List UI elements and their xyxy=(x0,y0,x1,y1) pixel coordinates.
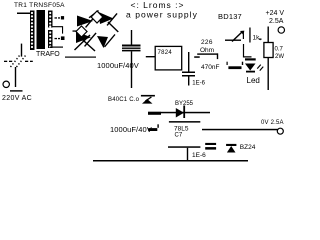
svg-text:BZ24: BZ24 xyxy=(240,144,256,151)
bridge diode D1 bar slash xyxy=(85,14,97,28)
bridge diode D2 bar slash xyxy=(107,13,118,26)
svg-text:0.7: 0.7 xyxy=(275,47,284,53)
wire R1 corner down xyxy=(217,53,218,59)
capacitor C1 top wire xyxy=(131,30,132,45)
svg-text:1k,: 1k, xyxy=(253,35,262,42)
resistor R3 box xyxy=(264,43,273,58)
diode Z1 bar xyxy=(141,95,155,97)
bridge arm wire to right node xyxy=(107,22,118,33)
diode Z1 triangle xyxy=(142,99,153,104)
diode Z1 diagonal xyxy=(145,97,152,102)
switch dashes xyxy=(4,61,7,62)
wire line2 xyxy=(169,121,200,123)
transistor Q1 emitter arrow xyxy=(232,32,243,43)
bridge diode D4 bar slash xyxy=(104,34,116,47)
secondary upper tap dashes xyxy=(55,17,58,18)
diode D6 bar xyxy=(183,106,185,119)
svg-text:1000uF/40V: 1000uF/40V xyxy=(97,61,139,70)
wire 1k to LED xyxy=(243,44,252,58)
regulator U1 box xyxy=(155,46,182,70)
svg-text:Ohm: Ohm xyxy=(200,47,214,54)
bridge node diamond top xyxy=(91,11,103,23)
capacitor C2 top wire xyxy=(188,52,189,72)
svg-text:C7: C7 xyxy=(175,133,183,139)
transformer secondary winding upper xyxy=(48,11,53,28)
bridge diode D4 triangle xyxy=(97,36,108,48)
bridge diode D3 triangle xyxy=(76,32,91,44)
svg-text:220V AC: 220V AC xyxy=(2,95,32,102)
bridge diode D1 triangle xyxy=(77,16,93,27)
wire primary top xyxy=(17,13,31,15)
svg-text:7824: 7824 xyxy=(158,50,173,56)
terminal input circle xyxy=(3,81,9,87)
bridge diode D2 triangle xyxy=(99,12,114,24)
transformer primary winding xyxy=(30,11,35,51)
transistor Q1 tick xyxy=(243,34,244,40)
capacitor C3 symbol xyxy=(227,62,228,65)
transformer secondary winding lower xyxy=(48,30,53,48)
capacitor C2 bottom wire xyxy=(188,76,189,86)
svg-text:TR1 TRNSF05A: TR1 TRNSF05A xyxy=(14,2,65,9)
bridge arm wire to top node xyxy=(89,10,99,18)
transformer core xyxy=(37,10,46,49)
wire transformer to switch xyxy=(21,44,22,57)
capacitor C5 plates xyxy=(205,143,216,145)
LED D5 light arrows xyxy=(257,64,261,69)
svg-text:78L5: 78L5 xyxy=(174,126,189,133)
regulator output stub xyxy=(194,56,200,58)
secondary lower tap dashes xyxy=(55,38,58,39)
resistor R3 bottom wire xyxy=(268,58,269,91)
resistor R3 top wire xyxy=(268,27,269,43)
svg-text:+24 V: +24 V xyxy=(266,10,285,17)
svg-text:470nF: 470nF xyxy=(201,64,219,71)
diode D6 triangle xyxy=(176,108,184,118)
switch dotted contact 1 xyxy=(11,56,20,68)
diode Z2 bar xyxy=(226,144,236,146)
capacitor C4 symbol xyxy=(148,128,157,131)
capacitor C2 plates xyxy=(182,72,195,74)
svg-text:2.5A: 2.5A xyxy=(269,18,284,25)
secondary lower tap square xyxy=(61,36,65,40)
LED D5 triangle xyxy=(245,64,256,71)
svg-text:2W: 2W xyxy=(275,54,284,60)
regulator input wire xyxy=(146,56,155,57)
svg-text:1E-6: 1E-6 xyxy=(192,80,205,86)
capacitor C1 plates xyxy=(122,45,141,47)
wire R1 horizontal xyxy=(197,53,218,54)
transistor Q1 base line xyxy=(225,40,241,41)
wire cap C5 down xyxy=(187,148,188,161)
diode Z2 triangle xyxy=(227,146,236,153)
svg-text:1E-6: 1E-6 xyxy=(192,152,206,159)
wire bridge bottom rail xyxy=(65,57,96,58)
svg-text:TRAFO: TRAFO xyxy=(36,51,60,58)
wire to bridge left node xyxy=(73,30,81,31)
rail to output minus xyxy=(202,129,278,131)
bridge diode D3 bar slash xyxy=(84,33,97,47)
svg-text:B40C1 C.o: B40C1 C.o xyxy=(108,97,140,103)
svg-text:BD137: BD137 xyxy=(218,12,242,21)
bridge node diamond left xyxy=(76,26,87,37)
wire terminal xyxy=(10,90,23,91)
bridge X cross line 1 xyxy=(74,35,91,51)
resistor R2 1k line xyxy=(249,28,250,43)
wire bottom center xyxy=(168,146,200,148)
bridge X cross line 2 xyxy=(79,36,96,52)
svg-text:a power supply: a power supply xyxy=(126,9,198,19)
svg-text:226: 226 xyxy=(201,39,213,46)
wire secondary lower bottom xyxy=(50,47,63,48)
capacitor C1 bottom wire xyxy=(131,51,132,88)
wire switch down xyxy=(15,67,16,87)
terminal output circle xyxy=(278,27,284,33)
switch dotted contact 2 xyxy=(17,56,26,68)
wire secondary upper elbow xyxy=(52,26,64,33)
LED D5 cathode bar xyxy=(246,71,255,73)
terminal output minus circle xyxy=(277,128,283,134)
svg-text:1000uF/40V: 1000uF/40V xyxy=(110,125,152,134)
svg-text:Led: Led xyxy=(247,76,260,85)
svg-text:0V 2.5A: 0V 2.5A xyxy=(261,120,284,126)
LED D5 top bar xyxy=(245,58,256,60)
ground rail bottom xyxy=(93,160,248,162)
secondary upper tap square xyxy=(61,16,64,19)
small mark xyxy=(259,39,262,40)
diode D6 wire xyxy=(148,112,210,114)
